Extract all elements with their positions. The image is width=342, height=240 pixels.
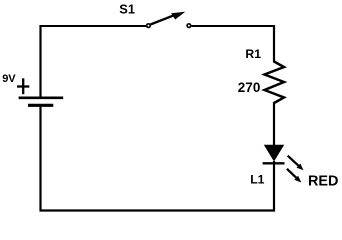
- wire left vertical (battery top): [39, 25, 41, 97]
- wire right vertical (LED to bottom): [273, 161, 275, 212]
- svg-text:9V: 9V: [2, 73, 16, 85]
- wire top-right segment: [192, 25, 276, 27]
- svg-text:R1: R1: [245, 47, 261, 61]
- resistor R1: [265, 62, 285, 104]
- battery plus sign: [17, 78, 29, 94]
- LED emission arrow 2: [287, 169, 301, 183]
- wire bottom segment: [40, 209, 276, 211]
- svg-text:S1: S1: [119, 1, 135, 16]
- svg-text:270: 270: [238, 80, 261, 95]
- LED L1: [263, 145, 285, 164]
- svg-text:L1: L1: [250, 172, 264, 186]
- switch S1: [147, 12, 191, 28]
- svg-text:RED: RED: [308, 174, 338, 190]
- wire right vertical (resistor to LED): [273, 102, 275, 146]
- LED emission arrow 1: [288, 156, 304, 171]
- wire left vertical (battery bottom): [39, 106, 41, 212]
- wire right vertical (top, to resistor): [273, 25, 275, 63]
- battery B1: [19, 98, 64, 106]
- wire top-left segment: [41, 25, 147, 27]
